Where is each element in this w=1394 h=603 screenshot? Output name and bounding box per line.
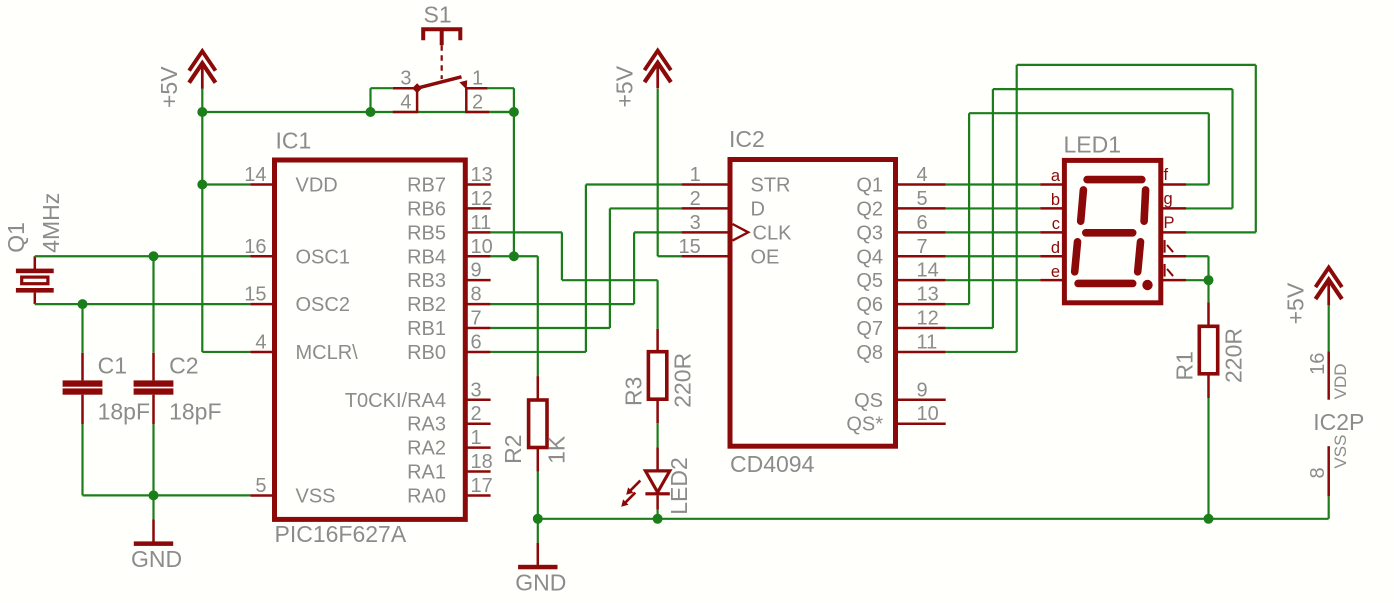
LED1 pin f: [1161, 183, 1186, 186]
wire Q2 to LED1 segment: [946, 207, 1040, 209]
IC2 pin 2 D: [682, 207, 730, 210]
Q1 top lead: [34, 256, 37, 269]
wire Q4 to LED1 segment: [946, 255, 1040, 257]
svg-text:RA3: RA3: [407, 414, 446, 436]
svg-text:P: P: [1164, 214, 1175, 232]
IC1 pin 12 RB6: [465, 207, 490, 210]
svg-text:C2: C2: [169, 353, 198, 379]
LED2 emission arrows: [630, 481, 640, 491]
svg-text:11: 11: [917, 331, 938, 353]
svg-text:6: 6: [917, 212, 928, 234]
IC1 pin 5 VSS: [250, 494, 274, 497]
svg-text:IC1: IC1: [276, 127, 312, 153]
C1 bottom plate: [63, 388, 103, 394]
IC1 pin 16 OSC1: [250, 255, 274, 258]
svg-text:RA1: RA1: [407, 462, 446, 484]
svg-text:RB3: RB3: [407, 270, 446, 292]
svg-text:1: 1: [690, 164, 701, 186]
svg-text:10: 10: [471, 236, 493, 258]
IC1 pin 14 VDD: [250, 183, 274, 186]
LED1 segment b bar: [1144, 190, 1146, 221]
LED1 segment c bar: [1138, 242, 1141, 272]
IC1 pin 10 RB4: [465, 255, 490, 258]
svg-text:GND: GND: [515, 570, 566, 596]
ground GND symbol (left): [152, 495, 154, 519]
wire VSS rail (C1,C2,GND to pin 5): [83, 494, 251, 496]
ground GND symbol (middle): [537, 519, 539, 543]
svg-text:Q1: Q1: [3, 222, 29, 253]
LED1 pin c: [1040, 231, 1064, 234]
wire R3 to LED2: [656, 423, 658, 447]
wire +5V to OE: [657, 89, 659, 257]
svg-text:8: 8: [1307, 467, 1329, 478]
IC1 pin 3 T0CKI/RA4: [465, 399, 490, 402]
svg-text:VDD: VDD: [296, 175, 338, 197]
svg-text:Q5: Q5: [856, 270, 883, 292]
op IC2 CD4094 box: [730, 160, 896, 447]
LED1 pin g: [1161, 207, 1186, 210]
IC2 pin 5 Q2: [896, 207, 946, 210]
svg-text:CD4094: CD4094: [730, 451, 815, 477]
svg-text:Q1: Q1: [856, 175, 883, 197]
svg-text:Q2: Q2: [856, 198, 883, 220]
Q1 bottom plate: [16, 288, 54, 293]
IC2 pin 4 Q1: [896, 183, 946, 186]
wire +5V vertical rail to VDD and MCLR: [201, 112, 203, 352]
svg-text:13: 13: [471, 164, 493, 186]
svg-text:8: 8: [471, 284, 482, 306]
svg-text:Q4: Q4: [856, 246, 883, 268]
LED1 segment g: [1086, 229, 1133, 237]
wire Q1 to OSC2: [35, 303, 251, 305]
wire Q1 to OSC1: [35, 255, 251, 257]
svg-text:7: 7: [917, 236, 928, 258]
node junction OSC1/C2: [149, 251, 159, 261]
C1 top plate: [63, 380, 103, 386]
S1 pin 3: [393, 87, 417, 90]
svg-text:e: e: [1051, 263, 1060, 281]
node junction LED2/ground rail: [653, 514, 663, 524]
IC2 pin 14 Q5: [896, 279, 946, 282]
svg-text:OSC2: OSC2: [296, 294, 350, 316]
node junction OSC2/C1: [78, 299, 88, 309]
IC1 pin 2 RA3: [465, 422, 490, 425]
svg-text:7: 7: [471, 308, 482, 330]
svg-text:12: 12: [917, 308, 939, 330]
svg-text:g: g: [1164, 190, 1173, 208]
node junction at S1 left terminal: [366, 107, 376, 117]
svg-text:RB2: RB2: [407, 294, 446, 316]
svg-text:VSS: VSS: [1331, 435, 1350, 469]
svg-text:4: 4: [255, 331, 266, 353]
svg-text:VDD: VDD: [1331, 363, 1350, 399]
LED2 cathode bar: [645, 492, 669, 495]
svg-text:+5V: +5V: [1282, 282, 1308, 324]
svg-text:S1: S1: [424, 1, 452, 27]
node junction C2/GND on VSS rail: [149, 490, 159, 500]
svg-text:18pF: 18pF: [169, 399, 221, 425]
svg-text:MCLR\: MCLR\: [296, 342, 359, 364]
LED1 pin b: [1040, 207, 1064, 210]
C1 top lead: [81, 353, 84, 381]
svg-text:2: 2: [690, 188, 701, 210]
R3 top lead: [656, 329, 659, 352]
svg-text:Q8: Q8: [856, 342, 883, 364]
LED2 triangle: [645, 471, 669, 492]
LED1 pin d: [1040, 255, 1064, 258]
wire Q5 to LED1 segment: [946, 279, 1040, 281]
C2 top lead: [152, 353, 155, 381]
LED1 segment f bar: [1081, 190, 1084, 221]
svg-text:2: 2: [471, 403, 482, 425]
IC1 pin 7 RB1: [465, 327, 490, 330]
svg-text:14: 14: [917, 260, 939, 282]
node junction RB4/S1: [509, 251, 519, 261]
IC1 pin 1 RA2: [465, 446, 490, 449]
svg-text:a: a: [1051, 167, 1061, 185]
LED1 decimal point: [1142, 280, 1152, 290]
svg-text:C1: C1: [98, 353, 127, 379]
node junction S1 right to RB4: [509, 107, 519, 117]
LED1 pin K (common cathode): [1161, 255, 1186, 258]
svg-text:3: 3: [400, 68, 411, 90]
S1 pin 4: [393, 111, 417, 114]
svg-text:RB1: RB1: [407, 318, 446, 340]
S1 dashed linkage: [441, 45, 443, 79]
IC1 pin 6 RB0: [465, 351, 490, 354]
IC2P pin 16 VDD: [1327, 352, 1330, 400]
IC2 pin 11 Q8: [896, 351, 946, 354]
LED1 segment e bar: [1075, 242, 1078, 272]
display LED1 seven segment: [1064, 160, 1160, 302]
wire RB0 to STR: [491, 351, 586, 353]
IC1 pin 18 RA1: [465, 470, 490, 473]
S1 right contact arrowhead: [459, 80, 467, 89]
wire +5V left stem to rail: [201, 89, 203, 112]
wire RB5 to R3/LED2 net: [491, 231, 562, 233]
IC1 pin 11 RB5: [465, 231, 490, 234]
svg-text:b: b: [1051, 191, 1060, 209]
IC2P pin 8 VSS: [1327, 446, 1330, 496]
LED2 anode lead: [656, 447, 659, 471]
wire cathode K pins join: [1186, 255, 1209, 257]
R1 bottom lead: [1207, 374, 1210, 398]
svg-text:5: 5: [255, 475, 266, 497]
IC2 pin 3 CLK: [682, 231, 730, 234]
svg-text:18: 18: [471, 451, 493, 473]
svg-text:14: 14: [244, 164, 266, 186]
svg-text:12: 12: [471, 188, 493, 210]
LED1 segment a: [1087, 176, 1142, 184]
svg-text:IC2: IC2: [729, 126, 765, 152]
svg-text:15: 15: [679, 236, 701, 258]
Q1 body: [22, 277, 48, 284]
R2 top lead: [537, 376, 540, 400]
LED1 pin P: [1161, 231, 1186, 234]
svg-text:2: 2: [472, 92, 483, 114]
svg-text:RB7: RB7: [407, 175, 446, 197]
svg-text:220R: 220R: [1221, 328, 1247, 383]
svg-text:11: 11: [471, 212, 492, 234]
wire Q6 loop to segment f: [946, 303, 969, 305]
svg-text:R2: R2: [500, 434, 526, 463]
svg-text:5: 5: [917, 188, 928, 210]
svg-text:10: 10: [917, 403, 939, 425]
wire ground rail: [538, 518, 1329, 520]
svg-text:IC2P: IC2P: [1313, 409, 1364, 435]
node junction R1/ground rail: [1204, 514, 1214, 524]
LED2 cathode lead: [656, 495, 659, 509]
svg-text:RA2: RA2: [407, 438, 446, 460]
R2 bottom lead: [537, 448, 540, 472]
svg-text:RA0: RA0: [407, 485, 446, 507]
svg-text:QS: QS: [854, 390, 883, 412]
wire cathode to R1: [1207, 280, 1209, 302]
svg-text:R3: R3: [621, 377, 647, 406]
S1 pin 2: [466, 111, 489, 114]
svg-text:6: 6: [471, 331, 482, 353]
wire Q3 to LED1 segment: [946, 231, 1040, 233]
node junction VDD pin 14: [197, 180, 207, 190]
svg-text:OE: OE: [751, 246, 780, 268]
svg-text:16: 16: [244, 236, 266, 258]
IC1 pin 13 RB7: [465, 183, 490, 186]
svg-text:R1: R1: [1172, 351, 1198, 380]
IC2 pin 9 QS: [896, 399, 946, 402]
wire RB1 to D: [491, 327, 610, 329]
S1 right terminal bar pins 1-2: [465, 87, 468, 113]
svg-text:1K: 1K: [544, 435, 570, 464]
svg-text:16: 16: [1307, 353, 1329, 375]
svg-text:Q7: Q7: [856, 318, 883, 340]
svg-text:4: 4: [400, 92, 411, 114]
wire LED2 to ground rail: [656, 510, 658, 519]
svg-text:D: D: [751, 198, 765, 220]
node junction R2/ground rail: [533, 514, 543, 524]
svg-text:d: d: [1051, 239, 1060, 257]
svg-text:RB4: RB4: [407, 246, 446, 268]
S1 contact pivot: [412, 83, 422, 93]
IC2 pin 10 QS*: [896, 422, 946, 425]
R1 top lead: [1207, 302, 1210, 326]
wire VDD pin 14 to +5V rail: [202, 183, 250, 185]
svg-text:9: 9: [917, 379, 928, 401]
LED1 segment d: [1078, 280, 1133, 288]
svg-text:Q6: Q6: [856, 294, 883, 316]
S1 pin 1: [466, 87, 487, 90]
IC2 pin 15 OE: [682, 255, 730, 258]
wire C1 bottom to VSS rail: [81, 424, 83, 495]
svg-text:GND: GND: [131, 546, 182, 572]
C2 top plate: [134, 380, 174, 386]
svg-text:LED2: LED2: [666, 457, 692, 515]
power +5V supply symbol (left): [189, 51, 215, 70]
power +5V supply symbol (middle): [645, 51, 671, 70]
LED1 pin a: [1040, 183, 1064, 186]
R3 bottom lead: [656, 399, 659, 423]
S1 left terminal bar pins 3-4: [416, 87, 419, 113]
C2 bottom lead: [152, 395, 155, 425]
wire RB4 net to R2: [491, 255, 538, 257]
IC2 clock wedge: [733, 224, 749, 241]
wire R2 to ground rail: [537, 472, 539, 519]
wire RB2 to CLK: [491, 303, 634, 305]
svg-text:15: 15: [244, 284, 266, 306]
wire Q7 loop to segment g: [946, 327, 993, 329]
wire +5V to IC2P VDD: [1328, 305, 1330, 352]
wire Q8 loop to segment P: [946, 351, 1017, 353]
svg-text:f: f: [1164, 166, 1169, 184]
svg-text:RB6: RB6: [407, 198, 446, 220]
wire S1 to RB4 vertical: [513, 112, 515, 256]
svg-text:1: 1: [471, 427, 482, 449]
node junction cathodes: [1204, 275, 1214, 285]
svg-text:+5V: +5V: [156, 66, 182, 108]
IC2 pin 7 Q4: [896, 255, 946, 258]
svg-text:RB5: RB5: [407, 222, 446, 244]
node junction +5V/S1 rail: [197, 107, 207, 117]
wire +5V rail to switch S1 pin 3/4: [202, 111, 514, 113]
IC2 pin 1 STR: [682, 183, 730, 186]
S1 lever: [417, 77, 461, 88]
svg-text:4MHz: 4MHz: [38, 193, 64, 253]
wire C1 top: [81, 304, 83, 353]
LED1 pin K (common cathode): [1161, 279, 1186, 282]
IC2 pin 6 Q3: [896, 231, 946, 234]
svg-text:220R: 220R: [670, 353, 696, 408]
svg-text:STR: STR: [751, 175, 791, 197]
svg-text:3: 3: [690, 212, 701, 234]
IC1 pin 9 RB3: [465, 279, 490, 282]
svg-text:T0CKI/RA4: T0CKI/RA4: [345, 390, 446, 412]
svg-text:+5V: +5V: [611, 65, 637, 107]
svg-text:9: 9: [471, 260, 482, 282]
C1 bottom lead: [81, 395, 84, 425]
Q1 top plate: [16, 269, 54, 274]
svg-text:PIC16F627A: PIC16F627A: [275, 521, 407, 547]
svg-text:17: 17: [471, 475, 493, 497]
wire S1 pin2 junction: [489, 111, 514, 113]
svg-text:4: 4: [917, 164, 928, 186]
wire Q1 to LED1 segment: [946, 183, 1040, 185]
IC1 pin 4 MCLR\: [250, 351, 274, 354]
IC2 pin 13 Q6: [896, 303, 946, 306]
S1 actuator button: [423, 29, 460, 40]
svg-text:LED1: LED1: [1064, 132, 1122, 158]
svg-text:3: 3: [471, 379, 482, 401]
power +5V supply symbol (right): [1316, 268, 1342, 288]
IC2 pin 12 Q7: [896, 327, 946, 330]
wire C2 bottom to VSS rail: [152, 424, 154, 495]
IC1 pin 8 RB2: [465, 303, 490, 306]
svg-text:1: 1: [472, 68, 483, 90]
svg-text:c: c: [1052, 215, 1060, 233]
IC1 pin 17 RA0: [465, 494, 490, 497]
svg-text:VSS: VSS: [296, 485, 336, 507]
C2 bottom plate: [134, 388, 174, 394]
svg-text:Q3: Q3: [856, 222, 883, 244]
svg-text:18pF: 18pF: [98, 399, 150, 425]
IC1 pin 15 OSC2: [250, 303, 274, 306]
op IC1 PIC16F627A box: [275, 160, 466, 519]
wire S1 pin1 to RB4 net: [488, 87, 514, 89]
svg-text:OSC1: OSC1: [296, 246, 350, 268]
svg-text:CLK: CLK: [753, 222, 793, 244]
wire R1 to ground rail: [1207, 398, 1209, 519]
wire C2 top: [152, 256, 154, 353]
svg-text:RB0: RB0: [407, 342, 446, 364]
wire VSS to ground rail: [1328, 496, 1330, 518]
svg-text:13: 13: [917, 284, 939, 306]
Q1 bottom lead: [34, 293, 37, 305]
svg-text:QS*: QS*: [846, 414, 883, 436]
LED1 pin e: [1040, 279, 1064, 282]
